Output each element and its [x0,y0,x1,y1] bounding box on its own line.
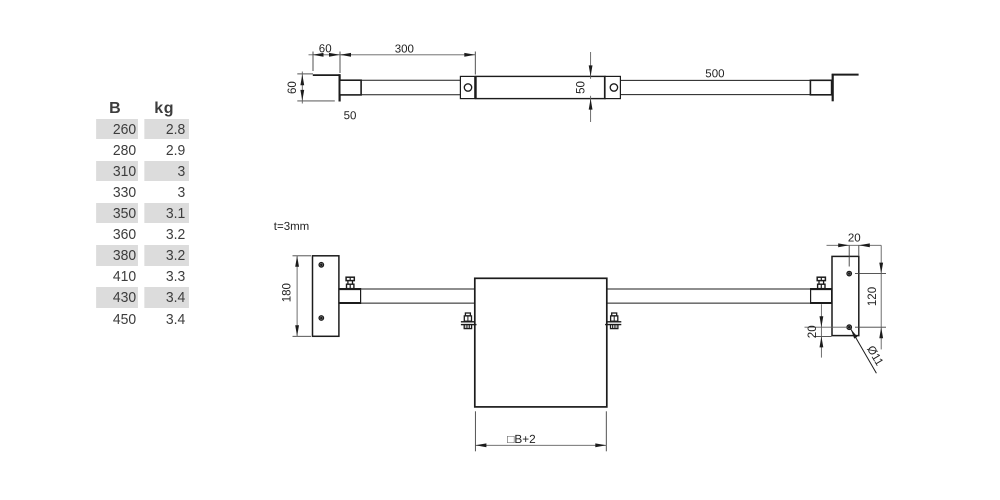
right clamp bolt (under tab) [611,313,618,329]
hole diameter leader [850,328,876,373]
svg-text:300: 300 [395,43,414,55]
dim 20 bottom extension lines [805,327,848,336]
svg-text:60: 60 [287,81,299,94]
dim 60 depth extension lines [297,74,335,101]
table row 430 [96,287,137,307]
dim 300 (top) [340,43,475,56]
table row 410 [96,266,137,286]
tube end plate left (top view) [460,76,474,98]
dim 300 right extension line [474,52,476,75]
svg-text:60: 60 [319,43,332,55]
table header B [93,100,138,118]
right plate bottom hole [847,325,851,329]
table row 450 [96,309,137,329]
table row 330 [96,182,137,202]
svg-text:500: 500 [705,68,724,80]
label D11 [864,344,885,368]
table row 260 [96,119,137,139]
right clamp tab [605,322,621,325]
right wall plate edge-on (top view) [832,74,834,101]
right clamp bracket (front view) [811,289,832,304]
tube end plate right (top view) [605,76,620,98]
left plate top hole [319,263,323,267]
right plate top hole [847,271,851,275]
svg-text:t=3mm: t=3mm [274,221,309,233]
inner arm tube (top view, right) [620,80,810,94]
left clamp bolt (under tab) [464,313,471,329]
dim 20 top extension lines [849,245,859,266]
svg-text:□B+2: □B+2 [507,432,535,446]
table header kg [141,100,189,118]
square sleeve box (front view) [475,278,607,407]
label 50 (block width) [344,110,357,122]
dim 60 flange (top) [309,43,344,56]
bolt hole right plate (top view) [610,84,617,91]
table row 380 [96,245,137,265]
left wall plate edge-on (top view) [339,74,341,101]
table row 360 [96,224,137,244]
dim B+2 extension lines [475,411,606,451]
bolt hole left plate (top view) [464,84,471,91]
inner arm tube (front view, right) [607,289,811,303]
svg-text:Ø11: Ø11 [864,344,885,368]
left plate bottom hole [319,316,323,320]
left clamp tab [461,322,477,325]
label t=3mm [274,221,309,233]
dim 60 flange extension lines [313,52,340,74]
outer square tube (top view) [476,76,605,99]
svg-text:20: 20 [848,232,861,244]
svg-text:180: 180 [282,283,294,302]
left wall plate flange (top view) [313,74,340,76]
svg-text:120: 120 [867,287,879,306]
table row 350 [96,203,137,223]
right arm clamp block (top view) [810,80,831,95]
inner arm tube (front view, left) [361,289,475,303]
left arm clamp block (top view) [340,80,361,95]
dim 20 top (hole offset) [827,232,882,247]
inner arm tube (top view, left) [361,80,460,95]
right wall plate (front view) [832,256,859,335]
dim 180 extension lines [293,256,312,336]
dim 120 extension lines [855,274,886,328]
table row 280 [96,140,137,160]
left bracket bolt [346,277,354,288]
svg-text:50: 50 [344,110,357,122]
right wall plate flange (top view) [832,74,859,76]
dim 50 tube height (middle) [576,52,593,122]
left wall plate (front view) [313,256,339,336]
label 500 (arm length) [705,68,724,80]
dim 60 depth (left, vertical) [287,72,304,104]
table row 310 [96,161,137,181]
left clamp bracket (front view) [339,289,361,304]
dim 120 (right, vertical) [867,245,883,349]
dim B+2 (bottom) [475,432,606,447]
svg-text:50: 50 [576,81,588,94]
svg-text:20: 20 [807,325,819,338]
right bracket bolt [817,277,825,288]
dim 180 (left, vertical) [282,256,300,336]
dim 20 bottom (hole offset) [807,304,823,357]
